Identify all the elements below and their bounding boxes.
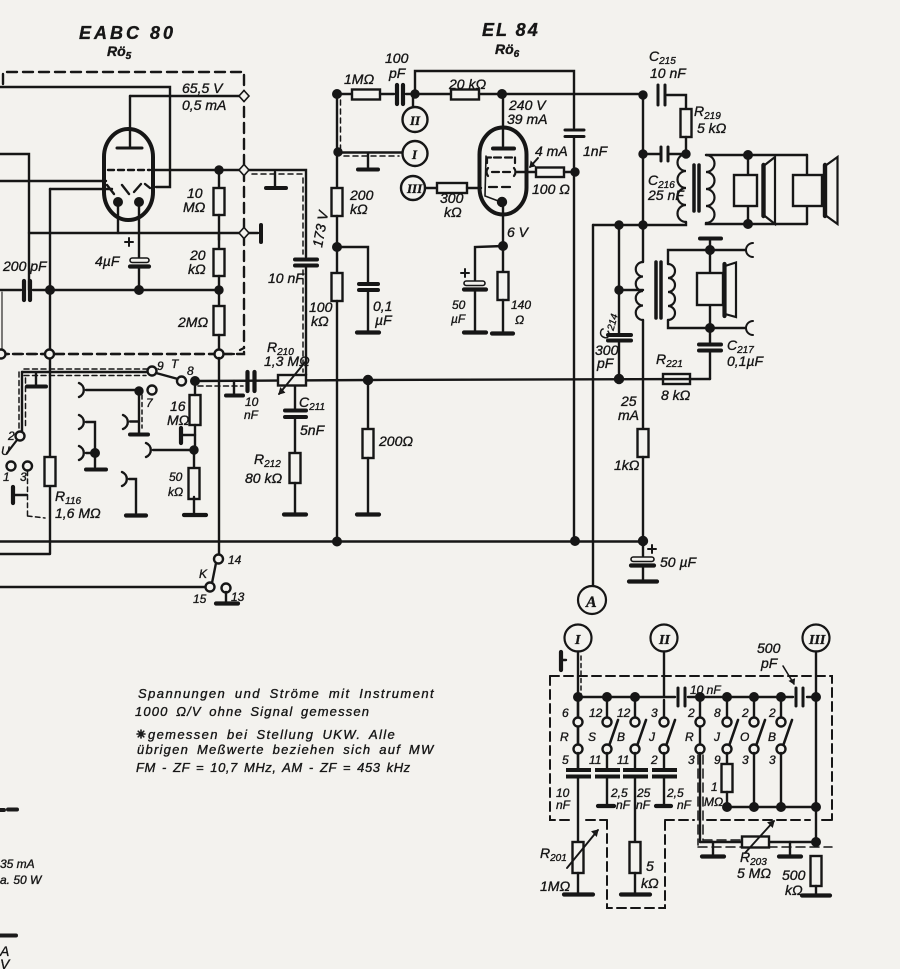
svg-text:1kΩ: 1kΩ xyxy=(614,457,640,473)
svg-text:III: III xyxy=(808,633,826,648)
svg-text:pF: pF xyxy=(596,355,615,371)
svg-text:140: 140 xyxy=(511,298,531,312)
svg-text:µF: µF xyxy=(451,312,466,326)
svg-text:0,1µF: 0,1µF xyxy=(727,353,765,369)
svg-text:6 V: 6 V xyxy=(507,224,530,240)
svg-text:35 mA: 35 mA xyxy=(0,857,35,871)
svg-text:II: II xyxy=(658,633,670,648)
svg-text:13: 13 xyxy=(231,590,245,604)
svg-text:K: K xyxy=(199,567,208,581)
svg-text:1,3 MΩ: 1,3 MΩ xyxy=(264,353,310,369)
svg-text:1000 Ω/V ohne Signal gemess: 1000 Ω/V ohne Signal gemessen xyxy=(135,704,370,719)
svg-text:10 nF: 10 nF xyxy=(690,683,721,697)
svg-text:nF: nF xyxy=(556,798,571,812)
svg-text:1MΩ: 1MΩ xyxy=(344,71,374,87)
svg-text:2: 2 xyxy=(687,706,695,720)
svg-text:I: I xyxy=(574,633,581,648)
svg-text:pF: pF xyxy=(760,655,779,671)
svg-text:6: 6 xyxy=(562,706,569,720)
svg-text:nF: nF xyxy=(616,798,631,812)
svg-text:pF: pF xyxy=(388,65,407,81)
svg-text:3: 3 xyxy=(769,753,776,767)
svg-text:MΩ: MΩ xyxy=(704,795,723,809)
svg-text:11: 11 xyxy=(617,753,629,767)
svg-text:kΩ: kΩ xyxy=(641,875,659,891)
svg-text:EL 84: EL 84 xyxy=(482,20,540,40)
svg-text:100: 100 xyxy=(385,50,409,66)
svg-text:3: 3 xyxy=(651,706,658,720)
svg-text:MΩ: MΩ xyxy=(183,199,206,215)
svg-text:80 kΩ: 80 kΩ xyxy=(245,470,282,486)
svg-text:O: O xyxy=(740,730,749,744)
svg-text:kΩ: kΩ xyxy=(444,204,462,220)
svg-text:2: 2 xyxy=(7,429,15,443)
svg-text:Spannungen und Ströme mit: Spannungen und Ströme mit Instrument xyxy=(138,686,435,701)
svg-text:R: R xyxy=(560,730,569,744)
svg-text:5: 5 xyxy=(646,858,654,874)
svg-text:S: S xyxy=(588,730,596,744)
svg-text:100 Ω: 100 Ω xyxy=(532,181,570,197)
svg-text:I: I xyxy=(411,147,418,162)
svg-text:20 kΩ: 20 kΩ xyxy=(448,76,486,92)
svg-text:10 nF: 10 nF xyxy=(650,65,687,81)
svg-text:kΩ: kΩ xyxy=(785,882,803,898)
svg-text:kΩ: kΩ xyxy=(350,201,368,217)
svg-text:5: 5 xyxy=(562,753,569,767)
svg-text:kΩ: kΩ xyxy=(188,261,206,277)
svg-text:15: 15 xyxy=(193,592,207,606)
svg-text:200 pF: 200 pF xyxy=(2,258,48,274)
svg-text:50: 50 xyxy=(169,470,183,484)
svg-text:5 MΩ: 5 MΩ xyxy=(737,865,771,881)
svg-text:12: 12 xyxy=(617,706,631,720)
svg-text:B: B xyxy=(617,730,625,744)
svg-text:10: 10 xyxy=(245,395,259,409)
svg-text:500: 500 xyxy=(782,867,806,883)
svg-text:14: 14 xyxy=(228,553,242,567)
svg-text:µF: µF xyxy=(375,312,393,328)
svg-text:nF: nF xyxy=(677,798,692,812)
svg-text:10 nF: 10 nF xyxy=(268,270,305,286)
svg-text:J: J xyxy=(713,730,721,744)
svg-text:II: II xyxy=(409,113,421,128)
svg-text:65,5 V: 65,5 V xyxy=(182,80,224,96)
svg-text:50: 50 xyxy=(452,298,466,312)
svg-text:8 kΩ: 8 kΩ xyxy=(661,387,691,403)
svg-text:1: 1 xyxy=(3,470,10,484)
svg-text:1,6 MΩ: 1,6 MΩ xyxy=(55,505,101,521)
svg-text:2: 2 xyxy=(768,706,776,720)
svg-text:A: A xyxy=(585,594,597,611)
svg-text:0,5 mA: 0,5 mA xyxy=(182,97,226,113)
svg-text:kΩ: kΩ xyxy=(311,313,329,329)
svg-text:200Ω: 200Ω xyxy=(378,433,413,449)
svg-text:12: 12 xyxy=(589,706,603,720)
svg-text:5nF: 5nF xyxy=(300,422,326,438)
svg-text:8: 8 xyxy=(187,364,194,378)
svg-text:3: 3 xyxy=(742,753,749,767)
svg-text:2: 2 xyxy=(741,706,749,720)
svg-text:übrigen Meßwerte beziehen s: übrigen Meßwerte beziehen sich auf MW xyxy=(137,742,435,757)
svg-text:9: 9 xyxy=(714,753,721,767)
svg-text:B: B xyxy=(768,730,776,744)
svg-text:5 kΩ: 5 kΩ xyxy=(697,120,727,136)
svg-text:R: R xyxy=(685,730,694,744)
svg-text:U: U xyxy=(1,444,10,458)
svg-text:III: III xyxy=(406,181,423,196)
svg-text:9: 9 xyxy=(157,359,164,373)
svg-text:4µF: 4µF xyxy=(95,253,121,269)
svg-text:4 mA: 4 mA xyxy=(535,143,568,159)
svg-text:MΩ: MΩ xyxy=(167,412,190,428)
svg-text:gemessen bei Stellung UKW.: gemessen bei Stellung UKW. Alle xyxy=(148,727,396,742)
svg-text:1MΩ: 1MΩ xyxy=(540,878,570,894)
svg-text:FM - ZF = 10,7 MHz, AM - ZF: FM - ZF = 10,7 MHz, AM - ZF = 453 kHz xyxy=(136,760,411,775)
svg-text:500: 500 xyxy=(757,640,781,656)
svg-text:mA: mA xyxy=(618,407,639,423)
svg-text:3: 3 xyxy=(20,470,27,484)
svg-text:Ω: Ω xyxy=(515,313,524,327)
svg-text:2: 2 xyxy=(650,753,658,767)
svg-text:EABC 80: EABC 80 xyxy=(79,23,176,43)
svg-text:nF: nF xyxy=(244,408,259,422)
svg-text:kΩ: kΩ xyxy=(168,485,183,499)
svg-text:J: J xyxy=(648,730,656,744)
svg-text:1nF: 1nF xyxy=(583,143,609,159)
svg-text:50 µF: 50 µF xyxy=(660,554,698,570)
svg-text:11: 11 xyxy=(589,753,601,767)
svg-text:2MΩ: 2MΩ xyxy=(177,314,208,330)
svg-text:3: 3 xyxy=(688,753,695,767)
svg-text:1: 1 xyxy=(711,780,718,794)
svg-text:nF: nF xyxy=(636,798,651,812)
svg-text:a. 50 W: a. 50 W xyxy=(0,873,43,887)
svg-text:8: 8 xyxy=(714,706,721,720)
svg-text:39 mA: 39 mA xyxy=(507,111,547,127)
svg-text:25 nF: 25 nF xyxy=(647,187,685,203)
